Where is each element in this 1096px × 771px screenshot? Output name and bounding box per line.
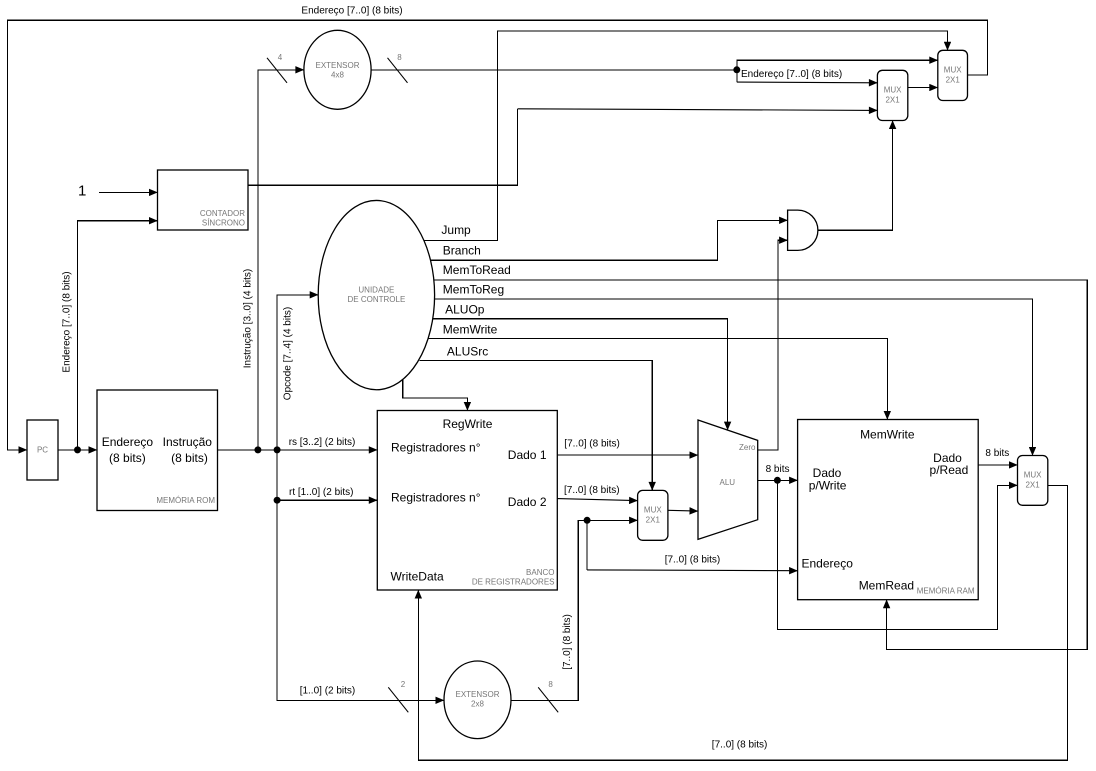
- wire: Dado 2 to MUX A upper input: [557, 499, 637, 501]
- wire: ALUOp to ALU top: [433, 319, 728, 430]
- wire: extensor 2x8 output up to node I: [511, 520, 587, 700]
- wire: MUX J output loop to PC (Endereço [7..0] top bus): [8, 20, 988, 450]
- wire: ROM Instrução output bus to registers rs input: [218, 449, 378, 451]
- svg-text:Dado 1: Dado 1: [508, 448, 547, 462]
- memória RAM box: [798, 420, 979, 600]
- svg-text:1: 1: [78, 183, 86, 200]
- svg-text:Dado 2: Dado 2: [508, 495, 547, 509]
- svg-text:MUX: MUX: [644, 505, 662, 514]
- svg-text:ALUSrc: ALUSrc: [447, 345, 488, 359]
- svg-text:MemToRead: MemToRead: [443, 263, 511, 277]
- svg-text:MUX: MUX: [1024, 471, 1042, 480]
- svg-text:[7..0] (8 bits): [7..0] (8 bits): [562, 614, 573, 670]
- svg-text:PC: PC: [37, 446, 48, 455]
- svg-text:BANCO: BANCO: [526, 568, 554, 577]
- wire: contador slant segment to MUX B lower input: [518, 109, 878, 111]
- svg-text:Endereço [7..0] (8 bits): Endereço [7..0] (8 bits): [741, 69, 842, 80]
- svg-text:Opcode [7..4] (4 bits): Opcode [7..4] (4 bits): [282, 307, 293, 400]
- wire: Opcode [7..4] to unidade de controle: [277, 295, 318, 450]
- svg-text:4x8: 4x8: [331, 70, 344, 79]
- svg-text:ALUOp: ALUOp: [445, 302, 485, 316]
- MUX B (branch mux): [877, 70, 907, 120]
- svg-text:Endereço: Endereço: [102, 435, 154, 449]
- wire: ALU Zero to AND gate input 2: [758, 240, 788, 450]
- wire: node E slant to MUX B upper input: [736, 70, 738, 82]
- svg-text:MUX: MUX: [944, 65, 962, 74]
- svg-text:2X1: 2X1: [885, 96, 900, 105]
- svg-text:2X1: 2X1: [1025, 481, 1040, 490]
- svg-text:8 bits: 8 bits: [985, 448, 1009, 459]
- svg-text:UNIDADE: UNIDADE: [358, 286, 394, 295]
- MUX A (ALUSrc mux): [638, 490, 668, 540]
- svg-text:2X1: 2X1: [946, 75, 961, 84]
- wire: node I to MUX A lower input: [587, 519, 638, 521]
- wire: RegWrite to banco de registradores: [403, 380, 468, 411]
- svg-text:SÍNCRONO: SÍNCRONO: [202, 219, 245, 228]
- node instrução junction 2: [274, 446, 281, 453]
- svg-text:EXTENSOR: EXTENSOR: [455, 690, 499, 699]
- svg-text:(8 bits): (8 bits): [109, 451, 146, 465]
- node E junction (extensor 4x8 output): [733, 66, 740, 73]
- extensor 4x8 ellipse: [304, 30, 371, 109]
- wire: constant 1 into contador: [99, 191, 158, 193]
- svg-text:MemRead: MemRead: [859, 579, 914, 593]
- svg-text:Registradores n°: Registradores n°: [391, 441, 481, 455]
- svg-text:2x8: 2x8: [471, 699, 484, 708]
- AND gate: [788, 210, 818, 250]
- slanted wires (smooth): [518, 82, 878, 571]
- wire: MUX R output to registers WriteData: [418, 485, 1067, 760]
- wire: MemToReg to MUX R select (top): [435, 299, 1033, 456]
- wire: ALU output to RAM Dado p/Write: [758, 479, 798, 481]
- extensor 2x8 ellipse: [444, 661, 511, 739]
- svg-text:2X1: 2X1: [646, 515, 661, 524]
- slash 2 bits into extensor 2x8: [388, 687, 408, 712]
- node PC-out junction: [74, 446, 81, 453]
- svg-text:p/Write: p/Write: [809, 478, 847, 492]
- wire: Jump signal to MUX J select (top): [424, 31, 948, 241]
- wire: instrução [3..0] up to extensor 4x8: [258, 70, 304, 450]
- wire: PC output to ROM: [58, 449, 97, 451]
- svg-text:p/Read: p/Read: [930, 463, 969, 477]
- node rt junction: [274, 497, 281, 504]
- unidade de controle ellipse: [318, 200, 434, 389]
- PC register: [27, 420, 58, 480]
- svg-text:MemWrite: MemWrite: [860, 428, 915, 442]
- MUX J (top right): [938, 50, 968, 100]
- svg-text:MEMÓRIA ROM: MEMÓRIA ROM: [156, 496, 215, 505]
- wire: rt [1..0] to registers input 2: [277, 499, 377, 501]
- svg-text:MEMÓRIA RAM: MEMÓRIA RAM: [917, 587, 975, 596]
- svg-text:MemWrite: MemWrite: [443, 323, 498, 337]
- wire: node E slant to MUX B upper input: [737, 81, 878, 84]
- wire: instruction bus down to [1..0] extensor 2x8 input: [277, 450, 444, 700]
- svg-text:ALU: ALU: [720, 478, 736, 487]
- svg-text:[7..0] (8 bits): [7..0] (8 bits): [564, 438, 620, 449]
- wire: MemWrite to RAM top: [428, 339, 887, 420]
- MUX R (writeback mux): [1018, 456, 1048, 506]
- wire: Branch to AND gate input 1: [430, 220, 787, 260]
- svg-text:CONTADOR: CONTADOR: [200, 209, 245, 218]
- svg-text:2: 2: [401, 680, 406, 689]
- wire: ALUSrc to MUX A select (top): [420, 360, 653, 490]
- wire: slant segment to RAM Endereço: [587, 569, 798, 572]
- svg-text:MemToReg: MemToReg: [443, 282, 504, 296]
- wire: contador output to MUX B lower input: [248, 109, 518, 185]
- wire: Dado 1 to ALU input 1: [557, 454, 698, 456]
- svg-text:Endereço [7..0] (8 bits): Endereço [7..0] (8 bits): [62, 271, 73, 372]
- svg-text:RegWrite: RegWrite: [443, 417, 493, 431]
- svg-text:4: 4: [278, 53, 283, 62]
- svg-text:Zero: Zero: [739, 443, 756, 452]
- svg-text:[1..0] (2 bits): [1..0] (2 bits): [300, 685, 356, 696]
- svg-text:Instrução [3..0] (4 bits): Instrução [3..0] (4 bits): [243, 269, 254, 369]
- svg-text:Instrução: Instrução: [163, 435, 213, 449]
- svg-text:8: 8: [548, 680, 553, 689]
- svg-text:DE REGISTRADORES: DE REGISTRADORES: [472, 578, 555, 587]
- wire: node I to RAM Endereço: [586, 520, 588, 570]
- svg-text:rt [1..0] (2 bits): rt [1..0] (2 bits): [289, 487, 353, 498]
- svg-text:Jump: Jump: [441, 223, 471, 237]
- node I junction (imediato): [584, 517, 591, 524]
- svg-text:DE CONTROLE: DE CONTROLE: [348, 295, 406, 304]
- memória ROM box: [97, 390, 218, 511]
- ALU trapezoid: [698, 420, 758, 539]
- slash 8 bits out of extensor 2x8: [538, 687, 558, 712]
- wire: extensor 4x8 output to node E: [371, 69, 737, 71]
- node ALU-out junction: [774, 477, 781, 484]
- svg-text:8: 8: [397, 53, 402, 62]
- svg-text:Endereço [7..0] (8 bits): Endereço [7..0] (8 bits): [301, 6, 402, 17]
- node instrução junction 1: [254, 446, 261, 453]
- svg-text:Endereço: Endereço: [802, 557, 854, 571]
- wire: MUX B output to MUX J lower input: [908, 87, 938, 89]
- wire: MUX A output to ALU input 2: [668, 509, 698, 512]
- wire: ALU output bypass down and to MUX R lower input: [777, 480, 1017, 629]
- svg-text:Branch: Branch: [443, 243, 481, 257]
- svg-text:[7..0] (8 bits): [7..0] (8 bits): [564, 485, 620, 496]
- wire: AND gate output to MUX B select (bottom): [818, 121, 893, 231]
- slash 4 bits into extensor 4x8: [267, 58, 287, 83]
- bit-width slashes: [267, 58, 558, 713]
- wire: RAM Dado p/Read to MUX R upper input: [978, 464, 1017, 466]
- svg-text:[7..0] (8 bits): [7..0] (8 bits): [665, 554, 721, 565]
- contador síncrono box: [158, 170, 249, 230]
- svg-text:WriteData: WriteData: [391, 569, 444, 583]
- wire: MemToRead to RAM MemRead (bottom): [434, 280, 1087, 650]
- svg-text:MUX: MUX: [884, 86, 902, 95]
- svg-text:[7..0] (8 bits): [7..0] (8 bits): [712, 740, 768, 751]
- svg-text:EXTENSOR: EXTENSOR: [315, 61, 359, 70]
- svg-text:(8 bits): (8 bits): [171, 451, 208, 465]
- wire: node E to MUX J upper input: [737, 60, 938, 70]
- svg-text:rs [3..2] (2 bits): rs [3..2] (2 bits): [289, 437, 356, 448]
- slash 8 bits out of extensor 4x8: [388, 58, 408, 83]
- svg-text:8 bits: 8 bits: [766, 464, 790, 475]
- svg-text:Registradores n°: Registradores n°: [391, 490, 481, 504]
- banco de registradores box: [377, 411, 557, 591]
- wire: PC output branch up to contador input 2: [78, 221, 158, 450]
